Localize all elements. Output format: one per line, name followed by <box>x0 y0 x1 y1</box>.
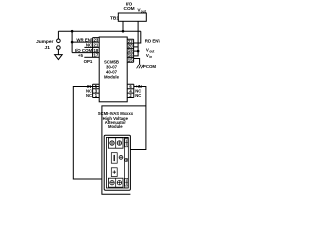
svg-text:COM: COM <box>123 6 134 12</box>
svg-text:WR EN\: WR EN\ <box>76 37 93 42</box>
svg-text:NC: NC <box>135 93 141 98</box>
svg-text:TB1: TB1 <box>110 15 119 21</box>
svg-text:NC: NC <box>86 93 92 98</box>
svg-text:J1: J1 <box>45 45 51 51</box>
svg-text:Module: Module <box>108 124 123 129</box>
svg-text:out: out <box>149 49 155 53</box>
svg-text:23: 23 <box>93 37 98 42</box>
svg-text:V: V <box>146 47 149 52</box>
svg-text:Jumper: Jumper <box>36 39 53 45</box>
svg-text:NC: NC <box>86 43 93 48</box>
svg-text:OP1: OP1 <box>84 59 93 64</box>
svg-text:17: 17 <box>93 52 98 57</box>
svg-text:in: in <box>149 55 152 59</box>
svg-text:PCOM: PCOM <box>143 64 157 69</box>
svg-text:V: V <box>146 53 149 58</box>
svg-text:15: 15 <box>128 57 133 62</box>
svg-text:+5: +5 <box>78 53 84 58</box>
svg-text:21: 21 <box>93 43 98 48</box>
svg-text:Module: Module <box>104 75 120 80</box>
svg-text:RD EN\: RD EN\ <box>145 39 161 44</box>
